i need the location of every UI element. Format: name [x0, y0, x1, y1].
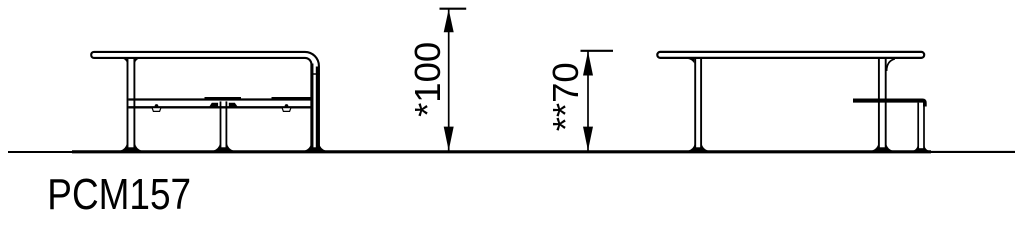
side view: right bolt detail [282, 104, 291, 111]
side view: frame tube foot [305, 144, 326, 151]
dimension *100: bottom arrowhead [444, 127, 454, 151]
end view: left leg foot [688, 144, 708, 151]
end view: tabletop board [657, 52, 924, 58]
side view: tabletop board with bent frame tube [91, 52, 319, 150]
side view: frame tube walls [312, 64, 317, 151]
side view: left leg [123, 58, 139, 150]
end view: right leg foot [872, 144, 893, 151]
dimension **70: top arrowhead [583, 51, 593, 75]
side view: middle leg mounting brackets [209, 103, 237, 107]
end view: right leg bend fillet [887, 59, 895, 71]
svg-text:**70: **70 [545, 62, 586, 131]
dimension *100: extension tick [440, 8, 467, 10]
svg-text:PCM157: PCM157 [47, 169, 191, 218]
side view: left leg foot [120, 144, 141, 151]
side view: middle leg [221, 101, 227, 150]
dimension **70: dimension line [587, 51, 589, 151]
dimension *100: dimension line [448, 9, 450, 151]
side view: seat plank top edge [129, 98, 313, 99]
dimension *100: top arrowhead [444, 9, 454, 32]
end view: left leg [688, 58, 701, 150]
svg-text:*100: *100 [407, 42, 448, 117]
end view: bench leg [918, 103, 924, 151]
side view: weld joint tick on tube [311, 73, 319, 75]
end view: bench seat bar [853, 99, 927, 107]
side view: seat plank bottom edge [129, 106, 313, 108]
end view: bench leg foot [913, 146, 929, 151]
dimension **70: extension tick [581, 50, 614, 52]
dimension **70: bottom arrowhead [583, 127, 593, 151]
end view: right leg [879, 58, 886, 150]
side view: middle leg foot [213, 144, 233, 151]
side view: left bolt detail [152, 104, 161, 111]
ground line [8, 151, 1015, 153]
